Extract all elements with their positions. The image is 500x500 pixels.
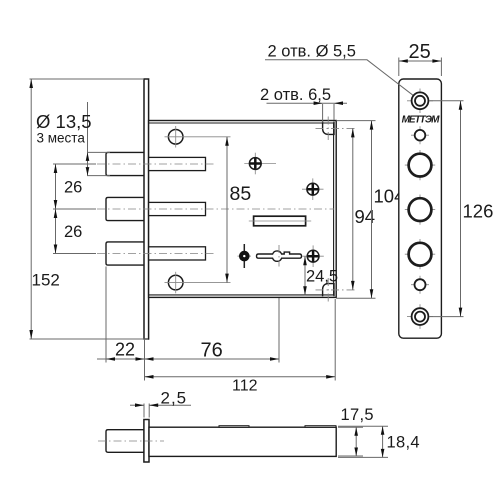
dimension 22 [106, 340, 145, 361]
svg-text:2,5: 2,5 [161, 389, 188, 408]
cam slot [249, 216, 311, 226]
svg-text:МЕТТЭМ: МЕТТЭМ [402, 115, 441, 126]
side view bolt pin [106, 430, 144, 453]
plate small hole upper [411, 126, 429, 144]
plate big hole 3 [405, 239, 435, 269]
plate small hole lower [411, 276, 429, 294]
svg-text:22: 22 [115, 340, 135, 360]
svg-text:126: 126 [463, 201, 494, 222]
svg-text:25: 25 [409, 41, 431, 63]
svg-text:18,4: 18,4 [387, 434, 420, 452]
cylinder axis centerline [278, 245, 280, 267]
faceplate strip (front view edge) [144, 79, 149, 339]
centerline bolt 3 [97, 253, 214, 255]
bolt tail T3 [149, 247, 206, 260]
face plate (front) [399, 79, 442, 338]
plate screw hole top Ø5,5 [407, 89, 433, 114]
svg-text:2 отв. 6,5: 2 отв. 6,5 [260, 86, 331, 104]
hole H1 top-left [165, 126, 231, 148]
screw S2 [302, 178, 324, 200]
dimension 126 [429, 101, 493, 317]
svg-text:26: 26 [64, 223, 82, 241]
svg-text:152: 152 [32, 271, 60, 290]
svg-text:112: 112 [232, 378, 258, 395]
centerline bolt 1 [97, 163, 214, 165]
leader line to screw hole [265, 60, 414, 96]
dimension 152 [29, 79, 148, 339]
bolt tail T2 [149, 202, 206, 215]
dimension 76 [145, 340, 280, 362]
callout 2 holes Ø5,5 [268, 43, 356, 61]
callout and dimension 2 holes 6,5 [260, 86, 347, 123]
logo METTEM [402, 115, 441, 126]
pivot pin [238, 244, 252, 268]
plate big hole 1 [405, 150, 435, 180]
corner hole top-right [316, 117, 357, 141]
hole H2 bottom-left [165, 272, 231, 294]
dimension 18,4 [338, 426, 420, 457]
dimension 94 [351, 128, 375, 290]
dimension 26 lower [53, 209, 96, 254]
dimension 104 [336, 121, 404, 299]
dimension Ø13,5 3 places [36, 102, 110, 176]
svg-text:3 места: 3 места [37, 131, 86, 146]
dimension 2,5 [130, 389, 191, 418]
corner hole bottom-right [316, 278, 357, 302]
svg-text:24,5: 24,5 [306, 268, 338, 286]
dimension 25 [399, 41, 442, 76]
dimension 112 [145, 299, 336, 395]
dimension 17,5 [338, 406, 374, 456]
svg-text:76: 76 [201, 340, 223, 362]
key bit lever [257, 251, 302, 261]
dimension 22 / 76 baseline [97, 267, 279, 381]
centerline bolt 2 [97, 208, 334, 210]
bolt B1 [106, 152, 144, 175]
side view case [149, 427, 336, 456]
svg-text:Ø 13,5: Ø 13,5 [36, 111, 92, 132]
svg-text:85: 85 [230, 183, 252, 205]
side view centerline [98, 440, 164, 442]
dimension 26 upper [53, 164, 96, 209]
bolt B2 [106, 197, 144, 220]
bolt B3 [106, 242, 144, 265]
case outline [149, 121, 337, 298]
side view tab 2 [305, 426, 336, 428]
bolt tail T1 [149, 157, 206, 170]
screw S3 [302, 245, 324, 267]
case inner contour [149, 123, 334, 295]
plate screw hole bottom Ø5,5 [407, 304, 433, 329]
svg-text:26: 26 [64, 179, 82, 197]
dimension 85 [225, 137, 251, 283]
side view faceplate [144, 420, 149, 463]
side view tab 1 [219, 426, 249, 428]
screw S1 [244, 153, 276, 175]
dimension 24,5 [303, 256, 338, 295]
svg-text:17,5: 17,5 [341, 406, 374, 424]
plate big hole 2 [405, 195, 435, 225]
svg-text:2 отв. Ø 5,5: 2 отв. Ø 5,5 [268, 43, 356, 61]
